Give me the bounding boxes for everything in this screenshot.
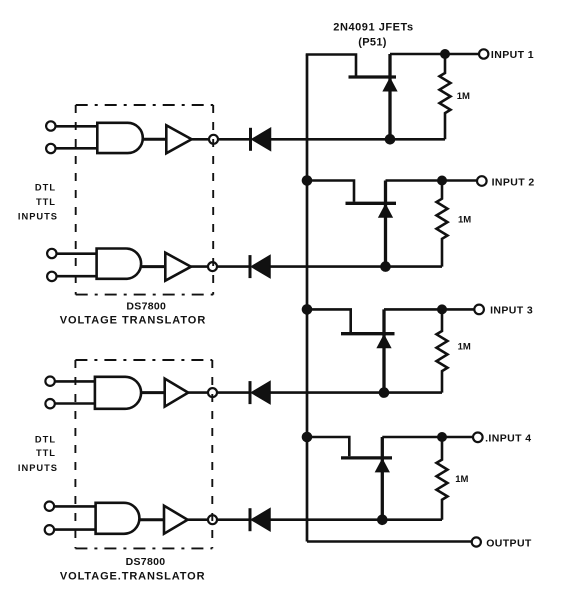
svg-text:VOLTAGE TRANSLATOR: VOLTAGE TRANSLATOR (60, 315, 206, 327)
wire circle to diode CR4 (217, 518, 250, 521)
buffer B1 (166, 125, 191, 153)
svg-text:DTL: DTL (35, 183, 56, 193)
buffer B3 (165, 379, 189, 407)
svg-text:DTL: DTL (35, 434, 56, 444)
svg-text:DS7800: DS7800 (126, 556, 166, 568)
translator output circle 4 (208, 515, 217, 524)
wire gate lead Q2 (307, 181, 354, 202)
transistor Q4 gate bar (341, 456, 392, 459)
OUTPUT terminal circle (472, 537, 481, 546)
label: DTL TTL INPUTS (upper) (18, 183, 58, 222)
input terminal circle 3a (45, 377, 54, 386)
diode CR1 (251, 128, 271, 151)
svg-text:VOLTAGE.TRANSLATOR: VOLTAGE.TRANSLATOR (60, 571, 206, 583)
node: junction dot resistor R2 top (437, 176, 447, 186)
svg-text:INPUT 2: INPUT 2 (492, 177, 535, 189)
wire circle to diode CR1 (218, 138, 251, 141)
wire buffer B4 to output circle (188, 518, 208, 521)
node: junction dot source rail 4 (377, 515, 388, 526)
wire gate A2 to buffer B2 (141, 265, 165, 268)
wire gate A3 to buffer B3 (141, 391, 165, 394)
input terminal circle 4b (45, 525, 54, 534)
svg-text:(P51): (P51) (358, 37, 386, 49)
diode CR3 (250, 381, 270, 404)
node: junction dot gate bus / gate lead Q4 (302, 432, 313, 443)
buffer B2 (165, 253, 191, 281)
wire input 3b to gate A3 (55, 402, 95, 405)
buffer B4 (164, 506, 188, 534)
input terminal circle 2b (47, 272, 56, 281)
wire gate lead Q1 from bus top corner (306, 55, 356, 76)
diode CR2 (250, 255, 270, 278)
transistor Q3 gate bar (341, 332, 395, 335)
AND gate A1 (97, 123, 143, 153)
svg-text:1M: 1M (457, 91, 470, 102)
node: junction dot resistor R4 top (437, 432, 447, 442)
translator output circle 1 (209, 135, 218, 144)
translator box DS7800 #2 (dashed) (75, 360, 212, 548)
transistor Q1 channel (388, 54, 391, 139)
wire input 1b to gate A1 (56, 147, 98, 150)
transistor Q2 arrow (379, 205, 393, 218)
wire: vertical gate bus (306, 55, 309, 542)
wire gate A1 to buffer B1 (143, 138, 167, 141)
wire: output line from bus to OUTPUT terminal (307, 540, 472, 543)
translator box DS7800 #1 (dashed) (76, 105, 214, 295)
resistor R4 1M (437, 437, 448, 520)
transistor Q4 arrow (376, 459, 390, 472)
diode CR4 (250, 508, 270, 531)
wire buffer B2 to output circle (191, 265, 208, 268)
node: junction dot source rail 3 (379, 387, 390, 398)
wire drain rail 4 to INPUT 4 (382, 436, 473, 439)
wire gate A4 to buffer B4 (139, 518, 164, 521)
input terminal circle 3b (45, 399, 54, 408)
wire circle to diode CR2 (217, 265, 250, 268)
transistor Q1 gate bar (349, 75, 397, 78)
svg-text:2N4091 JFETs: 2N4091 JFETs (333, 22, 413, 34)
svg-text:1M: 1M (455, 474, 468, 485)
svg-text:INPUTS: INPUTS (18, 211, 58, 221)
node: junction dot source rail 1 (385, 134, 396, 145)
svg-text:INPUTS: INPUTS (18, 463, 58, 473)
wire diode CR3 to source rail 3 (crosses gate bus) (270, 391, 442, 394)
wire input 3a to gate A3 (55, 380, 95, 383)
svg-text:1M: 1M (458, 341, 471, 352)
translator output circle 3 (208, 388, 217, 397)
node: junction dot gate bus / gate lead Q2 (302, 175, 313, 186)
AND gate A2 (97, 249, 141, 279)
wire buffer B3 to output circle (188, 391, 208, 394)
wire input 4b to gate A4 (54, 528, 96, 531)
AND gate A4 (96, 503, 140, 534)
transistor Q2 channel (384, 181, 387, 267)
transistor Q3 arrow (377, 335, 391, 348)
label: DTL TTL INPUTS (lower) (18, 434, 58, 473)
INPUT 3 terminal circle (474, 305, 484, 315)
wire input 2a to gate A2 (57, 252, 97, 255)
svg-text:INPUT 1: INPUT 1 (491, 49, 534, 61)
input terminal circle 4a (45, 502, 54, 511)
svg-text:DS7800: DS7800 (126, 301, 166, 313)
resistor R1 1M (440, 54, 451, 139)
wire input 4a to gate A4 (54, 505, 96, 508)
wire diode CR1 to source rail 1 (crosses gate bus) (271, 138, 446, 141)
AND gate A3 (95, 377, 141, 409)
svg-text:TTL: TTL (36, 448, 56, 458)
svg-text:TTL: TTL (36, 197, 56, 207)
transistor Q4 channel (381, 437, 384, 520)
svg-text:.INPUT 4: .INPUT 4 (485, 433, 531, 445)
svg-text:1M: 1M (458, 215, 471, 226)
wire gate lead Q4 (307, 437, 349, 456)
input terminal circle 1a (46, 121, 55, 130)
transistor Q2 gate bar (346, 202, 397, 205)
wire diode CR2 to source rail 2 (crosses gate bus) (270, 265, 442, 268)
node: junction dot source rail 2 (380, 261, 391, 272)
wire gate lead Q3 (307, 309, 351, 332)
INPUT 1 terminal circle (479, 49, 488, 58)
INPUT 2 terminal circle (477, 176, 487, 186)
input terminal circle 1b (46, 144, 55, 153)
wire drain rail 1 to INPUT 1 (390, 53, 479, 56)
node: junction dot resistor R1 top (440, 49, 450, 59)
svg-text:OUTPUT: OUTPUT (486, 537, 532, 549)
wire input 2b to gate A2 (57, 275, 97, 278)
wire drain rail 3 to INPUT 3 (384, 308, 474, 311)
svg-text:INPUT 3: INPUT 3 (490, 304, 533, 316)
transistor Q1 arrow (383, 78, 397, 91)
resistor R2 1M (437, 181, 448, 267)
transistor Q3 channel (382, 309, 385, 392)
node: junction dot gate bus / gate lead Q3 (302, 304, 313, 315)
resistor R3 1M (437, 309, 448, 392)
translator output circle 2 (208, 262, 217, 271)
wire input 1a to gate A1 (56, 125, 98, 128)
INPUT 4 terminal circle (473, 433, 483, 443)
wire buffer B1 to output circle (192, 138, 209, 141)
input terminal circle 2a (47, 249, 56, 258)
node: junction dot resistor R3 top (437, 304, 447, 314)
wire diode CR4 to source rail 4 (crosses gate bus) (270, 518, 442, 521)
wire drain rail 2 to INPUT 2 (386, 179, 478, 182)
wire circle to diode CR3 (217, 391, 250, 394)
